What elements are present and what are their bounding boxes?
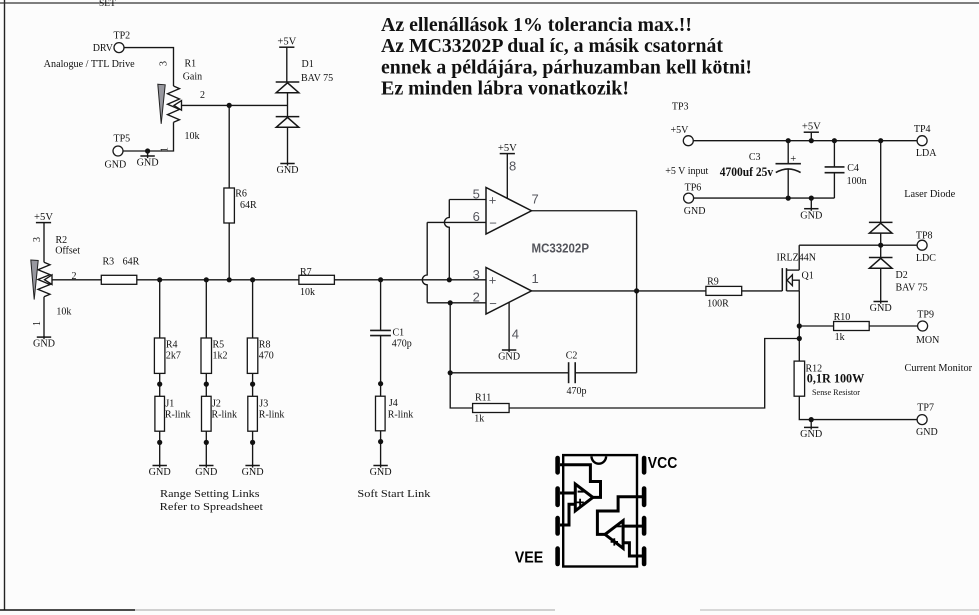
wire laser diode to LDC [880,233,882,257]
junction laser cathode [878,243,883,248]
svg-text:R-link: R-link [212,410,238,421]
svg-text:J2: J2 [212,399,221,410]
svg-text:GND: GND [105,160,127,171]
svg-text:D1: D1 [302,59,314,70]
svg-text:10k: 10k [185,131,200,142]
svg-text:R3: R3 [103,257,115,268]
svg-text:Analogue / TTL Drive: Analogue / TTL Drive [44,59,136,70]
svg-text:−: − [489,216,497,231]
svg-text:ennek a példájára, párhuzamban: ennek a példájára, párhuzamban kell kötn… [381,57,752,79]
ground below R2 [33,336,55,350]
test point TP2 [114,43,124,53]
schematic frame (partial) [4,0,6,610]
ground below rail [810,198,812,209]
op-amp U1A (pins 5,6,7,8) [486,188,532,235]
wire R10 to TP9 [869,325,917,327]
svg-text:2: 2 [200,90,205,101]
internal wire pin1 to opampA output [560,465,601,498]
svg-text:VCC: VCC [648,455,678,472]
+5V above D1 [277,37,296,48]
svg-text:D2: D2 [896,270,908,281]
svg-text:R-link: R-link [388,410,414,421]
svg-text:R6: R6 [235,189,247,200]
svg-text:R7: R7 [300,267,312,278]
svg-text:1k2: 1k2 [213,351,228,362]
svg-text:C3: C3 [749,152,761,163]
svg-text:3: 3 [473,267,480,282]
svg-text:64R: 64R [240,200,257,211]
junction C3 bottom [786,196,791,201]
svg-text:TP9: TP9 [917,310,934,321]
test point TP9 MON [918,321,928,331]
svg-text:J4: J4 [389,398,398,409]
+5V symbol above rail [802,122,821,133]
wire U1A output [532,210,637,212]
capacitor C3 4700uf 25v electrolytic [787,141,789,164]
svg-text:3: 3 [32,237,43,242]
svg-text:4700uf 25v: 4700uf 25v [720,165,774,179]
svg-text:10k: 10k [300,287,315,298]
resistor R4 2k7 [154,338,165,373]
svg-text:1: 1 [532,271,539,286]
resistor R12 0,1R 100W [794,361,805,396]
svg-text:TP6: TP6 [685,182,702,193]
svg-text:IRLZ44N: IRLZ44N [777,252,816,263]
link J3 R-link [248,396,258,431]
test point TP3 +5V input [683,136,693,146]
ground below D1 [276,163,298,177]
svg-text:Gain: Gain [183,72,202,83]
svg-text:Sense Resistor: Sense Resistor [812,388,860,397]
wire R2 wiper to R3 [52,279,101,281]
svg-text:1: 1 [32,321,43,326]
pin 2 wire [427,302,486,304]
wire bus to R5 [205,280,207,338]
svg-text:GND: GND [684,206,706,217]
junction R4 branch [157,277,162,282]
internal wire pin3 to opampA + input [560,504,575,525]
svg-text:R2: R2 [56,235,68,246]
svg-text:TP7: TP7 [917,402,934,413]
wire +5V rail [693,140,917,142]
wire R2 pin1 to ground [43,297,45,337]
potentiometer R1 10k Gain [168,86,180,122]
ground below J4 [370,465,392,479]
wire C1 to J4 with junction [380,336,382,397]
pin 5 wire [449,199,486,201]
svg-text:SET: SET [99,0,116,9]
svg-text:MC33202P: MC33202P [532,242,590,256]
svg-text:1k: 1k [474,413,484,424]
svg-text:470: 470 [259,351,274,362]
svg-text:R4: R4 [166,340,178,351]
package notch [592,456,607,463]
internal wire pin7 to opampB output [597,497,642,535]
svg-text:BAV 75: BAV 75 [896,283,928,294]
wire feedback node down to R11 [450,373,472,408]
svg-text:C1: C1 [393,327,405,338]
svg-text:TP5: TP5 [114,134,131,145]
junction laser branch [878,138,883,143]
capacitor C1 470p [370,329,391,331]
svg-text:R1: R1 [185,59,197,70]
svg-text:TP3: TP3 [672,101,689,112]
wire - input net (pin6 to pin2, hops input bus) [422,222,427,302]
wire R11 to sense feedback [509,339,799,409]
svg-text:LDC: LDC [916,253,936,264]
svg-text:+: + [489,273,497,288]
wire bus R3 to R7 [137,279,299,281]
test point TP6 GND [684,193,694,203]
+5V at pin 8 [498,143,517,154]
laser diode [869,222,893,233]
wire GND rail [694,197,835,199]
wire to R10 [799,325,833,327]
link J4 R-link [376,396,386,431]
svg-text:Soft Start Link: Soft Start Link [357,489,431,500]
svg-text:C2: C2 [566,351,578,362]
svg-text:Offset: Offset [55,246,80,257]
resistor R8 470 [247,338,257,373]
resistor R5 1k2 [201,338,212,373]
svg-text:C4: C4 [847,163,859,174]
ground below J2 [195,465,217,479]
pin 4 wire [508,303,510,351]
junction feedback branch [797,336,802,341]
svg-text:R8: R8 [259,340,271,351]
junction R6 branch [227,277,232,282]
svg-text:+5 V input: +5 V input [665,166,708,177]
svg-text:R11: R11 [475,392,491,403]
pin 4 [555,546,560,566]
capacitor C4 100n [833,141,835,167]
pin 8 wire [506,154,508,199]
svg-text:R5: R5 [213,340,225,351]
pin 8 [642,456,647,475]
svg-text:VEE: VEE [515,549,544,566]
wire R1 pin1 to TP5 [123,122,173,151]
diode D2 BAV 75 [869,258,893,269]
pin 5 [642,546,647,566]
svg-text:2k7: 2k7 [166,351,181,362]
pin 2 [555,486,560,507]
junction R8 branch [250,277,255,282]
wire Q1 source down [798,291,800,361]
ground below TP5 wire [147,151,149,156]
internal wire pin5 to opampB + input [623,543,642,556]
wire J3 to ground with junction [252,431,254,465]
svg-text:TP4: TP4 [914,124,931,135]
wire node 2: R1 wiper to D1 [182,104,288,106]
pin 6 wire [427,221,486,223]
ground at pin 4 [498,349,520,363]
svg-text:LDA: LDA [916,148,937,159]
wire Q1 drain up to LDC node [798,245,800,270]
wire LDC node to TP8 [799,244,917,246]
wire +5V to R2 pin3 [43,223,45,263]
resistor R7 10k [299,275,335,284]
link J1 R-link [155,396,165,431]
svg-text:3: 3 [159,61,170,66]
svg-text:+5V: +5V [671,125,690,136]
svg-text:Refer to Spreadsheet: Refer to Spreadsheet [160,502,263,513]
test point TP7 GND [917,415,927,425]
wire J4 to ground with junction [380,431,382,466]
junction GND stub at R12 [809,417,814,422]
internal wire pin6 to opampB - input [623,525,642,528]
svg-text:7: 7 [532,191,539,206]
ground below R12 [810,420,812,428]
wire +5V to D1 [286,47,288,82]
junction C1 branch [378,277,383,282]
resistor R6 64R [224,188,235,223]
wire bus to C1 [380,280,382,330]
diode D1 BAV 75 (lower) [276,117,300,128]
wire R4 to J1 with junction [159,373,161,396]
test point TP4 LDA [917,136,927,146]
ground below J1 [149,465,171,479]
svg-text:BAV 75: BAV 75 [301,73,333,84]
junction C3 top [786,138,791,143]
wire J2 to ground with junction [205,431,207,465]
test point TP8 LDC [917,240,927,250]
svg-text:8: 8 [509,158,516,173]
svg-text:470p: 470p [567,386,587,397]
pin 3 [555,516,560,536]
svg-text:R9: R9 [707,276,719,287]
internal op-amp A triangle [575,484,593,511]
internal op-amp B triangle [605,521,623,549]
wire D1 to ground [287,127,289,163]
svg-text:R-link: R-link [259,410,285,421]
svg-text:TP2: TP2 [114,31,131,42]
svg-text:TP8: TP8 [916,231,933,242]
junction R10 branch [797,323,802,328]
svg-text:−: − [489,296,497,311]
svg-text:470p: 470p [392,339,412,350]
junction on TP5 wire [145,148,150,153]
svg-text:Q1: Q1 [802,271,814,282]
+5V above R2 [34,212,53,223]
link J2 R-link [202,396,212,431]
wire C2 to output vertical [575,372,636,374]
svg-text:100R: 100R [707,298,729,309]
wire J1 to ground with junction [159,431,161,465]
resistor R10 1k [834,322,870,331]
wire between D1 diodes [287,93,289,117]
svg-text:1k: 1k [835,332,845,343]
svg-text:J3: J3 [259,399,268,410]
test point TP5 [113,146,123,156]
wire bus R7 to op-amp pin3 [334,279,486,281]
wire R6 to input bus [228,223,230,280]
resistor R3 64R [101,275,137,284]
potentiometer R2 10k Offset [38,262,50,297]
wire pin2 net down to feedback node [449,303,451,373]
svg-text:R-link: R-link [165,410,191,421]
wire U1B output to R9 [532,290,706,292]
capacitor C2 470p [568,362,570,383]
pin 6 [642,516,647,536]
wire output vertical [636,211,638,373]
wire R8 to J3 with junction [252,373,254,396]
wire feedback node to C2 [450,372,568,374]
svg-text:R10: R10 [834,312,851,323]
svg-text:+: + [489,192,497,207]
junction C4 top [832,138,837,143]
svg-text:+: + [790,154,796,165]
wire R5 to J2 with junction [205,373,207,396]
junction +5V stub [809,138,814,143]
transistor Q1 IRLZ44N MOSFET [781,268,783,291]
wire + input net (pin5 to pin3, hops pin6 wire) [444,200,449,280]
svg-text:Laser Diode: Laser Diode [904,189,955,200]
IC package U1 DIP-8 outline [563,455,637,566]
wire TP2 to R1 pin3 [124,48,173,86]
junction pin2 / feedback [448,300,453,305]
junction feedback node [448,370,453,375]
junction R5 branch [204,277,209,282]
svg-text:4: 4 [512,327,519,342]
svg-text:64R: 64R [123,257,140,268]
ground below D2 [870,301,892,315]
svg-text:Az ellenállások 1% tolerancia: Az ellenállások 1% tolerancia max.!! [381,14,692,36]
op-amp U1B (pins 3,2,1,4) [486,268,532,315]
resistor R11 1k [473,404,510,413]
pin 7 [642,486,647,507]
pin 1 [555,456,560,475]
svg-text:Ez minden lábra vonatkozik!: Ez minden lábra vonatkozik! [381,78,629,100]
junction op-amp + inputs [447,277,452,282]
wire node2 to R6 [228,105,230,188]
svg-text:Range Setting Links: Range Setting Links [160,489,260,500]
wire bus to R4 [159,280,161,338]
ground below J3 [242,465,264,479]
wire rail to laser diode [880,141,882,223]
wire bus to R8 [252,280,254,338]
wire R9 to Q1 gate [742,290,783,292]
wire R12 to TP7 line [799,396,917,419]
resistor R9 100R [706,286,742,295]
internal wire pin2 to opampA - input [560,492,575,495]
svg-text:MON: MON [916,335,939,346]
svg-text:DRV: DRV [93,43,114,54]
junction outputs [634,288,639,293]
junction node 2 / R6 [227,103,232,108]
wire D2 to ground [880,268,882,301]
svg-text:J1: J1 [165,399,174,410]
svg-text:Current Monitor: Current Monitor [905,363,973,374]
svg-text:10k: 10k [56,307,71,318]
svg-text:100n: 100n [847,176,867,187]
junction GND stub [809,196,814,201]
svg-text:0,1R 100W: 0,1R 100W [807,372,865,386]
diode D1 BAV 75 (upper) [276,82,300,93]
svg-text:GND: GND [916,427,938,438]
svg-text:Az MC33202P dual íc, a másik c: Az MC33202P dual íc, a másik csatornát [381,35,723,57]
